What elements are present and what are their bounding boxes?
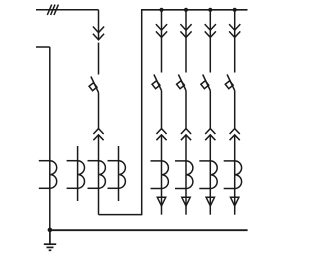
drop-out fuse FU4: [201, 75, 210, 91]
wire feeder 2 upper: [185, 10, 187, 37]
wire: riser up to bus: [141, 10, 143, 216]
drop-out fuse FU5: [225, 75, 234, 91]
wire feeder 1 upper: [161, 10, 163, 37]
wire: [209, 37, 211, 72]
junction dot at ground node: [48, 228, 53, 233]
junction dot feeder 1: [159, 8, 163, 12]
wire: [98, 43, 100, 75]
wire: drop from incoming line: [98, 10, 100, 40]
drawout contact chevron (up) on incoming branch: [93, 129, 103, 141]
bus bar: [141, 9, 248, 11]
wire: dangling conductor of winding W2: [77, 146, 79, 201]
load arrow feeder 1: [157, 197, 165, 206]
chevron (down) feeder 4: [229, 24, 240, 37]
drop-out fuse FU3: [177, 75, 186, 91]
winding W1: [39, 161, 57, 189]
chevron (up) feeder 2: [181, 129, 191, 141]
chevron (up) feeder 1: [156, 129, 166, 141]
junction dot feeder 4: [233, 8, 237, 12]
wire feeder 4 lower: [234, 135, 236, 215]
drop-out fuse FU2: [152, 75, 161, 91]
three-phase slash marks: [47, 5, 58, 15]
wire: [209, 91, 211, 129]
wire: incoming line top-left: [36, 9, 99, 11]
wire: [185, 91, 187, 129]
wire feeder 2 lower: [185, 135, 187, 215]
load arrow feeder 4: [231, 197, 239, 206]
stub wire upper left: [36, 46, 50, 48]
junction dot feeder 2: [184, 8, 188, 12]
wire feeder 4 upper: [234, 10, 236, 37]
winding W4: [108, 161, 126, 189]
winding W2: [67, 161, 85, 189]
wire: dangling conductor of winding W4: [118, 146, 120, 201]
wire: [161, 37, 163, 72]
wire: bottom horizontal run: [99, 214, 142, 216]
chevron (down) feeder 2: [180, 24, 191, 37]
drop-out fuse FU1: [89, 77, 98, 93]
winding W8 feeder 4: [224, 161, 242, 189]
wire: [234, 37, 236, 72]
junction dot feeder 3: [208, 8, 212, 12]
earth ground symbol: [44, 230, 56, 250]
chevron (up) feeder 4: [230, 129, 240, 141]
wire: [185, 37, 187, 72]
wire: [98, 93, 100, 129]
wire: through winding down to bottom run: [98, 135, 100, 215]
winding W3 on incoming branch: [88, 161, 106, 189]
wire feeder 3 upper: [209, 10, 211, 37]
winding W5 feeder 1: [151, 161, 169, 189]
ground conductor (bottom horizontal): [50, 229, 248, 231]
chevron (down) feeder 3: [205, 24, 216, 37]
wire: left vertical to ground: [49, 47, 51, 230]
chevron (up) feeder 3: [205, 129, 215, 141]
load arrow feeder 3: [206, 197, 214, 206]
wire feeder 1 lower: [161, 135, 163, 215]
wire feeder 3 lower: [209, 135, 211, 215]
wire: [161, 91, 163, 129]
chevron (down) feeder 1: [156, 24, 167, 37]
load arrow feeder 2: [182, 197, 190, 206]
wire: [234, 91, 236, 129]
drawout contact chevron (down) on incoming: [93, 26, 104, 39]
winding W7 feeder 3: [199, 161, 217, 189]
winding W6 feeder 2: [175, 161, 193, 189]
